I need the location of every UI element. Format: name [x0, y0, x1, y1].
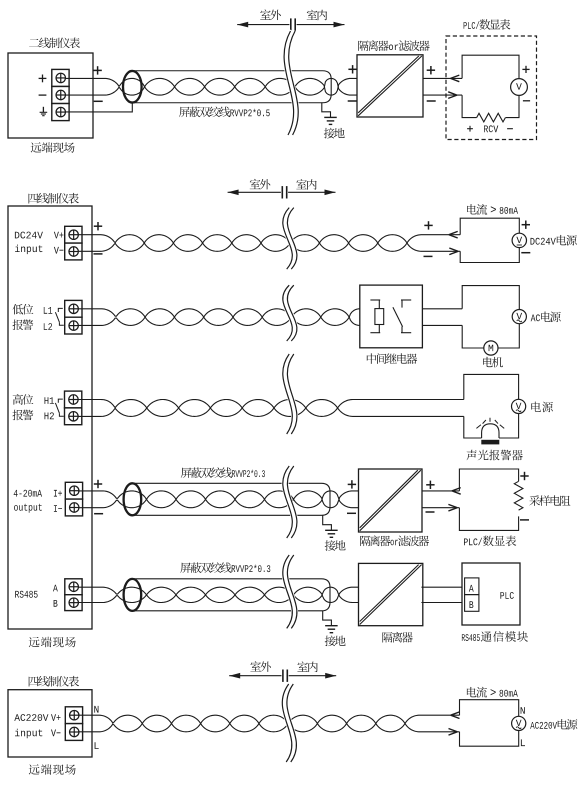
isolator output mark - [427, 100, 436, 102]
label 室外 (S2) [250, 179, 271, 190]
arrow right row1 [449, 248, 458, 255]
voltmeter AC220V source [512, 716, 526, 730]
meter mark + [522, 66, 529, 73]
mark - row4 plc [520, 519, 529, 521]
wire isolator to module A [421, 586, 464, 588]
polarity - row4 left [94, 513, 103, 515]
twisted pair S3 [78, 715, 460, 732]
label 四线制仪表 (S2) [29, 193, 79, 204]
label 声光报警器 [466, 450, 522, 461]
relay contact [393, 300, 411, 333]
meter mark - [523, 100, 530, 102]
label RS485 [15, 591, 37, 598]
voltmeter source row3 [511, 399, 525, 413]
wire isolator to PLC (top) [423, 75, 462, 82]
label input (S3) [15, 729, 42, 739]
label 电机 [483, 357, 503, 368]
label 室外 (S3) [250, 661, 271, 672]
voltmeter AC source row2 [512, 310, 526, 324]
cable break row3 [283, 354, 297, 434]
isolator row4 mark + right [426, 481, 434, 489]
label DC24V电源 [531, 235, 577, 246]
shield ellipse row5 [124, 579, 142, 611]
label L (instrument) [95, 742, 99, 749]
label V- (S3) [51, 730, 61, 737]
motor M [484, 341, 498, 355]
twisted pair row2 [78, 309, 360, 326]
label 电源 (row3) [531, 402, 553, 413]
cable break S3 [282, 684, 296, 762]
label N (supply) [521, 707, 525, 714]
terminal block row3 [65, 391, 82, 425]
label H2 [45, 412, 54, 419]
cable jacket RVVP2*0.5 [132, 71, 331, 103]
arrow right S3 [449, 729, 458, 736]
isolator 隔离器or滤波器 [357, 55, 423, 117]
arrow left row1 [449, 231, 458, 238]
cable jacket row5 [132, 579, 330, 611]
twisted pair row1 [78, 235, 460, 252]
shield drain to earth S1 [322, 102, 337, 124]
mark + row1 supply [522, 221, 530, 229]
cable break row1 [283, 208, 297, 270]
PLC dashed enclosure [446, 36, 537, 140]
label AC220V [14, 714, 48, 721]
receiver loop wiring [462, 55, 519, 117]
instrument box S2 远端现场 [8, 206, 92, 629]
polarity - row1 left [94, 253, 103, 255]
label DC24V [15, 232, 43, 239]
shield drain to earth row4 [323, 515, 338, 537]
terminal label - [39, 94, 47, 96]
polarity mark - (cable start) [94, 100, 103, 102]
module terminal B box [465, 595, 479, 612]
RCV mark - [507, 128, 513, 130]
polarity mark + (cable start) [93, 66, 101, 74]
label 二线制仪表 [29, 38, 80, 49]
label 报警 (row2) [13, 320, 34, 331]
cable jacket row4 [132, 483, 330, 515]
label H1 [45, 397, 55, 404]
label 屏蔽双绞线RVVP2*0.3 (row5) [180, 562, 270, 573]
label 室外 (top) [260, 10, 281, 21]
isolator row4 mark - left [347, 512, 356, 514]
twisted pair row4 [78, 491, 359, 508]
twisted pair row3 [78, 400, 353, 417]
label AC220V电源 [530, 719, 577, 730]
switch contact mark row2 [55, 308, 63, 325]
label PLC/数显表 [464, 19, 511, 30]
polarity + row4 left [94, 480, 102, 488]
cable break row5 [283, 555, 297, 628]
label L2 [44, 323, 52, 330]
mark + row4 plc [520, 472, 528, 480]
mark - row1 supply [521, 252, 530, 254]
wire row3 to loop (top) [353, 399, 464, 401]
terminal block S3 [65, 707, 82, 741]
RCV mark + [467, 126, 473, 132]
polarity + row1 left [94, 222, 102, 230]
label AC电源 [531, 312, 561, 323]
label RCV [484, 125, 498, 132]
label 室内 (S3) [297, 662, 317, 673]
label 屏蔽双绞线RVVP2*0.3 (row4) [181, 467, 265, 478]
sampling resistor 采样电阻 [514, 481, 523, 510]
voltmeter DC24V source [512, 233, 526, 247]
label I+ [54, 490, 62, 497]
wire relay to AC loop (bottom) [422, 324, 462, 326]
wall boundary 室外/室内 (S3) [229, 670, 336, 682]
isolator row4 隔离器or滤波器 [359, 469, 423, 532]
label 远端现场 (S2) [29, 637, 76, 648]
shield ellipse row4 [124, 483, 142, 515]
instrument box S3 远端现场 [8, 690, 92, 757]
twisted pair row5 [78, 587, 359, 602]
isolator row4 mark - right [426, 511, 435, 513]
terminal block TB1 [52, 69, 69, 120]
label 报警 (row3) [13, 410, 34, 421]
label RS485通信模块 [462, 631, 528, 642]
wire isolator to PLC (bottom) [423, 92, 462, 99]
label 室内 (top) [307, 10, 327, 21]
relay box 中间继电器 [360, 285, 423, 348]
label 室内 (S2) [296, 179, 316, 190]
label N (instrument) [94, 706, 98, 713]
label 隔离器or滤波器 (row4) [360, 536, 429, 547]
terminal block row5 [65, 579, 82, 611]
terminal block row1 [65, 226, 82, 260]
label 接地 row5 [325, 636, 346, 647]
label 屏蔽双绞线RVVP2*0.5 [179, 107, 270, 118]
wire row3 to loop (bottom) [353, 415, 464, 417]
label 远端现场 (S3) [29, 764, 76, 775]
label output [14, 504, 42, 513]
wire isolator to PLC row4 (bottom) [422, 504, 459, 511]
sound-light alarm 声光报警器 [476, 418, 504, 445]
shield drain wire (terminal 3 to shield) [65, 103, 132, 112]
label PLC (module) [500, 592, 513, 599]
module terminal A box [465, 578, 479, 595]
label L (supply) [521, 739, 525, 746]
isolator input mark - [348, 100, 357, 102]
terminal label + [39, 75, 47, 83]
label 隔离器or滤波器 [358, 40, 429, 51]
arrow left S3 [451, 712, 460, 719]
cable break symbol S1 [284, 31, 298, 135]
label 电流 > 80mA (S3) [467, 687, 518, 698]
switch contact mark row3 [55, 399, 63, 416]
label 隔离器 [382, 632, 412, 643]
voltmeter V (PLC) [511, 79, 528, 96]
label 接地 S1 [324, 128, 345, 139]
isolator input mark + [348, 65, 356, 73]
shield drain to earth row5 [323, 611, 338, 633]
terminal block row2 [65, 300, 82, 334]
polarity + row1 right [424, 221, 432, 229]
terminal earth symbol [40, 107, 48, 116]
isolator row5 隔离器 [359, 563, 423, 625]
polarity - row1 right [424, 255, 433, 257]
resistor RCV [477, 113, 506, 122]
label 电流 > 80mA (row1) [467, 204, 518, 215]
relay coil [370, 300, 383, 333]
AC supply loop row2 [462, 286, 519, 348]
label V+ (S3) [51, 714, 61, 721]
label 4-20mA [14, 490, 42, 497]
wire isolator to PLC row4 (top) [422, 488, 461, 495]
label 远端现场 [31, 142, 75, 153]
RS485 module box [462, 563, 520, 625]
label 高位 [13, 394, 34, 405]
label V+ (row1) [54, 232, 64, 239]
label V- (row1) [54, 247, 64, 254]
alarm supply loop [464, 374, 519, 438]
wire relay to AC loop (top) [422, 308, 462, 310]
isolator row4 mark + left [348, 480, 356, 488]
AC220V supply loop [460, 700, 519, 747]
wall boundary 室外/室内 (top) [237, 18, 344, 30]
label 低位 [13, 304, 34, 315]
terminal block row4 [65, 482, 82, 516]
instrument box 远端现场 (二线制仪表) [8, 53, 93, 138]
isolator output mark + [427, 66, 435, 74]
label PLC/数显表 (row4) [464, 536, 516, 547]
label 中间继电器 [367, 353, 417, 364]
label B (row5) [54, 600, 58, 607]
label L1 [44, 307, 53, 314]
shield ellipse S1 [123, 71, 142, 103]
label 四线制仪表 (S3) [29, 676, 79, 687]
wall boundary 室外/室内 (S2) [228, 186, 336, 198]
cable break row4 [283, 466, 297, 538]
label 采样电阻 [529, 495, 570, 506]
label A (row5) [53, 585, 58, 592]
PLC loop row4 [459, 469, 518, 530]
label 接地 row4 [325, 540, 346, 551]
label I- [54, 505, 62, 512]
wire isolator to module B [421, 602, 464, 604]
DC24V supply loop [460, 218, 519, 262]
twisted pair 屏蔽双绞线RVVP2*0.5 [65, 78, 359, 95]
label input [15, 245, 42, 255]
cable break row2 [283, 285, 297, 341]
